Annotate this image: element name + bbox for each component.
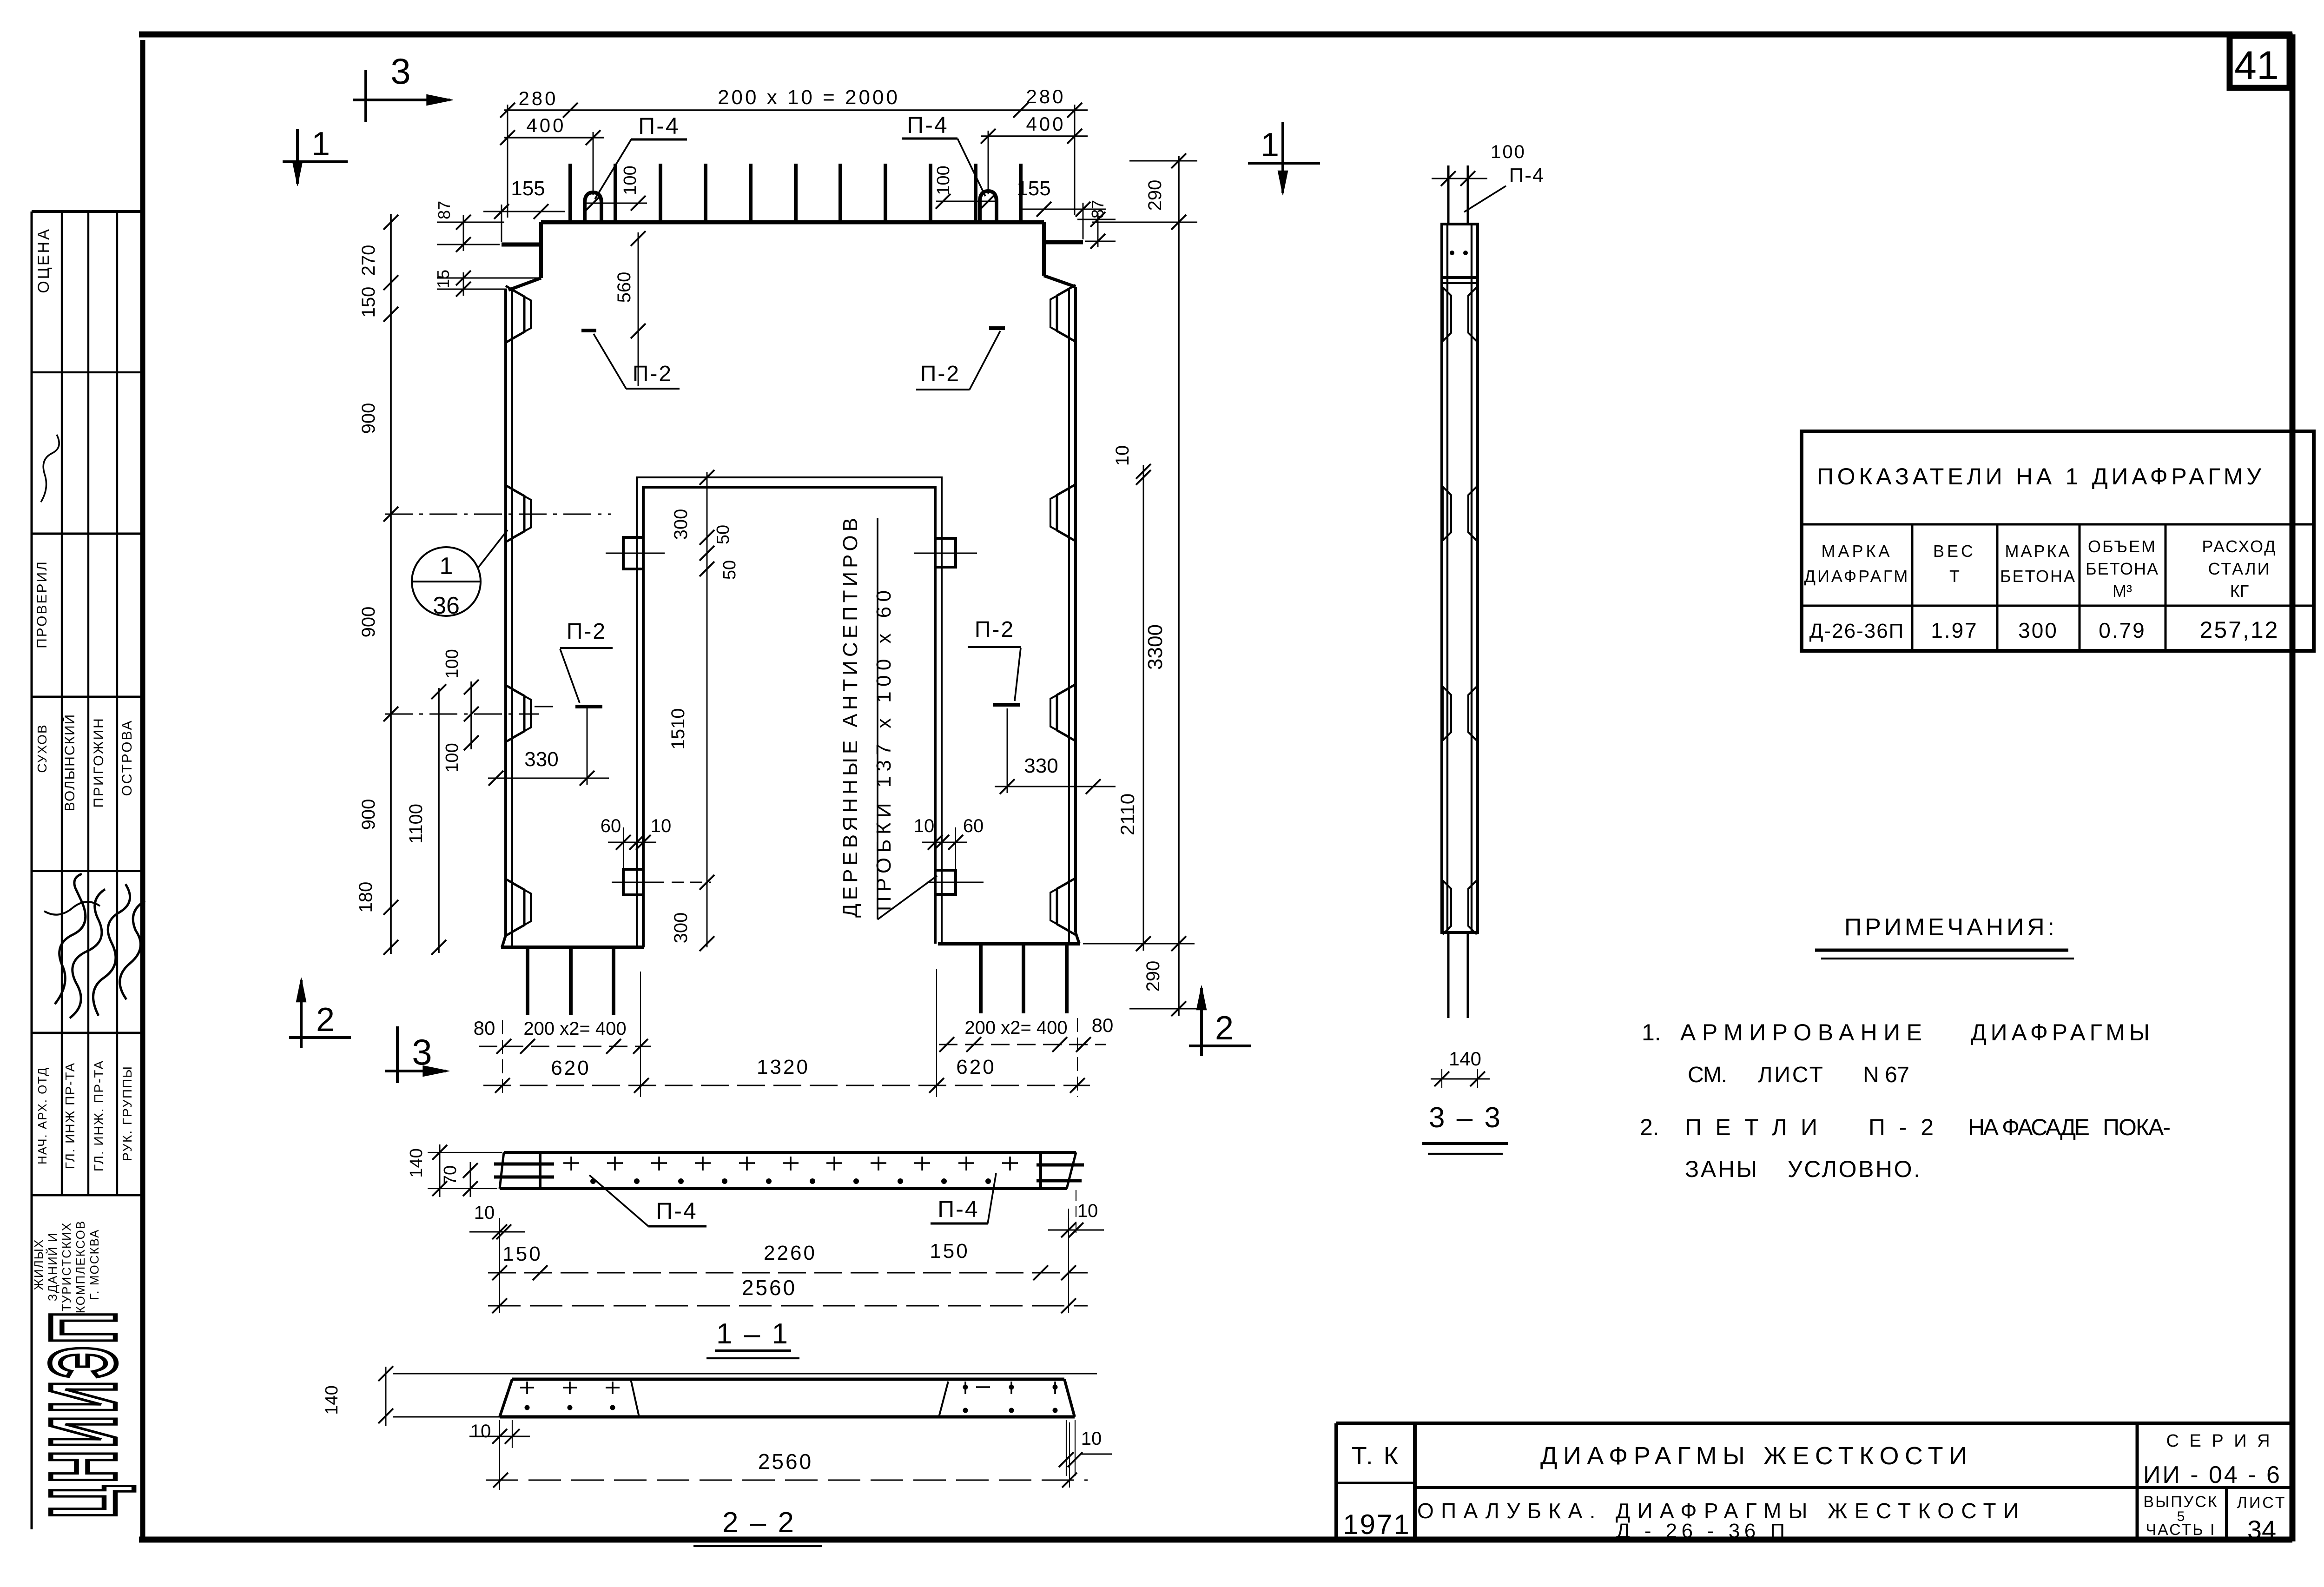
dim 100 loop right xyxy=(934,165,996,209)
svg-text:2560: 2560 xyxy=(742,1276,797,1300)
svg-text:290: 290 xyxy=(1143,961,1163,992)
stamp column labels xyxy=(34,227,135,1171)
svg-text:100: 100 xyxy=(934,165,953,195)
section 1-1 dowel cross marks xyxy=(563,1157,1018,1170)
dim line 400 left xyxy=(500,114,604,195)
dim 330 right xyxy=(995,708,1116,794)
stamp signatures xyxy=(41,435,145,1018)
svg-text:87: 87 xyxy=(435,201,454,219)
svg-text:0.79: 0.79 xyxy=(2099,618,2146,642)
wooden plug upper-left xyxy=(623,537,643,569)
section 1-1 body xyxy=(500,1152,1076,1189)
svg-text:СТАЛИ: СТАЛИ xyxy=(2208,559,2271,578)
plug centerlines upper xyxy=(606,553,977,554)
svg-text:155: 155 xyxy=(1017,177,1050,200)
svg-text:50: 50 xyxy=(720,560,739,580)
label P-4 section 1-1 right xyxy=(931,1173,996,1223)
svg-text:МАРКА: МАРКА xyxy=(2005,542,2072,561)
shear key L1 outer xyxy=(506,286,524,343)
note 2 line 1 xyxy=(1640,1114,2171,1140)
svg-text:ВОЛЫНСКИЙ: ВОЛЫНСКИЙ xyxy=(62,714,78,811)
shear key L3 outer xyxy=(506,685,524,742)
svg-text:330: 330 xyxy=(1024,754,1058,777)
svg-text:КОМПЛЕКСОВ: КОМПЛЕКСОВ xyxy=(73,1220,87,1313)
svg-text:П-4: П-4 xyxy=(938,1196,979,1222)
stamp institute text xyxy=(32,1220,101,1313)
svg-text:140: 140 xyxy=(322,1385,342,1415)
svg-text:2110: 2110 xyxy=(1116,793,1138,835)
wooden plug upper-right xyxy=(935,538,956,567)
title 2-2 xyxy=(693,1507,822,1546)
dim 150 2260 150 xyxy=(488,1218,1088,1313)
panel right top edge xyxy=(1042,222,1046,276)
svg-text:620: 620 xyxy=(551,1057,590,1079)
panel left outer edge xyxy=(504,289,507,935)
svg-text:ОСТРОВА: ОСТРОВА xyxy=(119,719,135,796)
dim 290 top right xyxy=(1092,161,1197,222)
dim 60 10 lower-left plug xyxy=(601,816,672,869)
loop mark P-2 lower right xyxy=(968,617,1021,705)
dim 2560 section 2-2 xyxy=(486,1422,1088,1488)
svg-text:ЗАНЫ: ЗАНЫ xyxy=(1685,1156,1757,1182)
dim 10 right section 1-1 xyxy=(1048,1190,1104,1237)
dim 1100 xyxy=(406,684,446,955)
centerline key2 xyxy=(385,514,611,515)
section marker 1 top-left xyxy=(283,126,348,186)
svg-text:ГЛ. ИНЖ. ПР-ТА: ГЛ. ИНЖ. ПР-ТА xyxy=(92,1060,106,1171)
svg-text:300: 300 xyxy=(671,509,691,540)
svg-text:Т: Т xyxy=(1949,567,1960,586)
svg-text:10: 10 xyxy=(1112,445,1133,466)
svg-text:N 67: N 67 xyxy=(1863,1063,1909,1087)
svg-text:П-2: П-2 xyxy=(975,617,1015,642)
section 3-3 key 4 xyxy=(1443,880,1477,934)
svg-text:60: 60 xyxy=(963,816,984,836)
right leg bottom edge xyxy=(938,942,1080,946)
svg-text:1320: 1320 xyxy=(757,1056,810,1078)
svg-text:150: 150 xyxy=(358,287,379,318)
svg-text:П-4: П-4 xyxy=(1509,164,1545,187)
svg-text:ВЫПУСК: ВЫПУСК xyxy=(2143,1493,2218,1511)
svg-text:60: 60 xyxy=(601,816,621,836)
dim 100 100 key3 xyxy=(442,649,479,772)
svg-text:400: 400 xyxy=(1026,113,1065,135)
svg-text:ДЕРЕВЯННЫЕ АНТИСЕПТИРОВ: ДЕРЕВЯННЫЕ АНТИСЕПТИРОВ xyxy=(839,518,862,918)
svg-text:БЕТОНА: БЕТОНА xyxy=(2086,559,2159,578)
svg-text:1: 1 xyxy=(1261,126,1279,164)
svg-text:3: 3 xyxy=(390,51,410,92)
svg-text:СУХОВ: СУХОВ xyxy=(35,724,49,773)
svg-text:10: 10 xyxy=(914,816,935,836)
svg-text:ЦНИИЭП: ЦНИИЭП xyxy=(31,1309,136,1518)
svg-text:150: 150 xyxy=(502,1243,542,1265)
svg-text:П-2: П-2 xyxy=(920,362,960,386)
svg-text:200 х2= 400: 200 х2= 400 xyxy=(523,1018,626,1039)
sheet number box 41 xyxy=(2230,36,2290,88)
title block list 34 xyxy=(2237,1494,2287,1544)
svg-text:П-4: П-4 xyxy=(907,112,948,138)
svg-text:ЖИЛЫХ: ЖИЛЫХ xyxy=(32,1239,46,1290)
section marker 3 bottom xyxy=(385,1026,449,1083)
svg-text:280: 280 xyxy=(518,87,558,109)
loop mark P-2 upper left xyxy=(581,331,680,389)
shear key R2 inner xyxy=(1050,489,1069,537)
left dim chain line xyxy=(356,214,398,955)
door opening outer contour xyxy=(637,477,942,946)
svg-text:3 – 3: 3 – 3 xyxy=(1429,1102,1502,1134)
dim 140 section 2-2 xyxy=(322,1366,1097,1426)
shear key R1 inner xyxy=(1050,289,1069,337)
dim 100 section 3-3 xyxy=(1432,142,1526,186)
note 1 line 1 xyxy=(1642,1019,2150,1045)
svg-text:ИИ - 04 - 6: ИИ - 04 - 6 xyxy=(2143,1461,2282,1488)
svg-text:80: 80 xyxy=(1092,1014,1114,1036)
svg-text:1100: 1100 xyxy=(406,804,426,844)
svg-text:36: 36 xyxy=(433,592,460,619)
svg-text:АРМИРОВАНИЕ: АРМИРОВАНИЕ xyxy=(1680,1019,1922,1045)
opening dim line 300-50-50-1510-300 xyxy=(668,470,739,951)
dim line 280|200x10=2000|280 xyxy=(500,86,1088,218)
title block frame xyxy=(1336,1423,2292,1540)
label P-4 top left xyxy=(595,113,687,199)
svg-text:10: 10 xyxy=(1077,1201,1098,1221)
panel left inner edge line xyxy=(511,290,513,946)
lifting loop P-4 left xyxy=(585,192,601,222)
svg-text:Д-26-36П: Д-26-36П xyxy=(1809,620,1905,642)
section 3-3 key 3 xyxy=(1443,687,1477,741)
dim 87 right xyxy=(1077,200,1116,249)
svg-text:ПРОБКИ 137 х 100 х 60: ПРОБКИ 137 х 100 х 60 xyxy=(872,590,895,911)
section 2-2 body xyxy=(500,1379,1075,1417)
section 2-2 left block marks xyxy=(520,1382,620,1410)
svg-text:РАСХОД: РАСХОД xyxy=(2202,537,2277,556)
svg-text:100: 100 xyxy=(1491,142,1526,162)
title block subtitle xyxy=(1417,1499,2019,1542)
svg-text:Г. МОСКВА: Г. МОСКВА xyxy=(87,1229,101,1300)
dim line 400 right xyxy=(981,113,1088,194)
label P-4 top right xyxy=(902,112,985,196)
svg-text:1: 1 xyxy=(311,126,330,163)
svg-text:900: 900 xyxy=(358,403,379,434)
dim 100 loop left xyxy=(586,165,647,211)
svg-text:100: 100 xyxy=(442,743,462,772)
svg-text:70: 70 xyxy=(441,1165,460,1185)
svg-text:БЕТОНА: БЕТОНА xyxy=(2000,567,2076,586)
note 1 line 2 xyxy=(1688,1063,1909,1087)
shear key L2 inner xyxy=(512,489,531,538)
section 3-3 key 2 xyxy=(1443,487,1477,541)
svg-text:2: 2 xyxy=(1215,1010,1234,1047)
dim 10 left section 1-1 xyxy=(469,1203,525,1239)
dim 10 right section 2-2 xyxy=(1059,1420,1112,1476)
svg-text:ПОКАЗАТЕЛИ НА 1 ДИАФРАГМУ: ПОКАЗАТЕЛИ НА 1 ДИАФРАГМУ xyxy=(1817,463,2261,489)
label P-4 section 1-1 left xyxy=(589,1175,706,1226)
top rebar dowels xyxy=(570,164,1021,222)
dim 10 60 lower-right plug xyxy=(914,816,984,870)
label wooden plugs text xyxy=(839,518,937,919)
note 2 line 2 xyxy=(1685,1156,1920,1182)
panel left top edge xyxy=(539,222,543,278)
svg-text:180: 180 xyxy=(356,882,376,913)
svg-text:15: 15 xyxy=(434,270,453,288)
svg-text:10: 10 xyxy=(651,816,672,836)
svg-text:П-2: П-2 xyxy=(1868,1114,1934,1140)
dim 200x2=400 80 right xyxy=(939,1014,1113,1052)
svg-text:1 – 1: 1 – 1 xyxy=(716,1318,790,1350)
svg-text:ЛИСТ: ЛИСТ xyxy=(2237,1494,2287,1512)
stamp logo CNIIEP xyxy=(31,1309,136,1518)
dim 155 right xyxy=(1017,177,1106,239)
svg-text:300: 300 xyxy=(671,913,691,944)
section 2-2 right block marks xyxy=(963,1382,1058,1413)
loop mark P-2 upper right xyxy=(916,328,1005,390)
svg-text:3: 3 xyxy=(412,1032,432,1072)
table headers xyxy=(1804,537,2277,601)
svg-text:100: 100 xyxy=(621,165,640,195)
title block vypusk xyxy=(2143,1493,2218,1539)
svg-text:П-4: П-4 xyxy=(656,1198,697,1224)
dim 620 1320 620 xyxy=(483,969,1090,1097)
svg-text:80: 80 xyxy=(474,1017,495,1039)
loop mark P-2 lower left xyxy=(535,619,613,707)
shear key R3 inner xyxy=(1050,688,1069,737)
dim 560 xyxy=(614,231,646,386)
svg-text:400: 400 xyxy=(526,114,566,136)
svg-text:150: 150 xyxy=(930,1240,969,1263)
dim 155 left xyxy=(483,177,565,242)
shear key L3 inner xyxy=(512,689,531,738)
svg-text:257,12: 257,12 xyxy=(2200,617,2279,643)
svg-text:ТУРИСТСКИХ: ТУРИСТСКИХ xyxy=(59,1222,73,1311)
svg-text:1510: 1510 xyxy=(668,708,688,750)
section 1-1 protruding bars right xyxy=(1037,1165,1084,1181)
section 3-3 top rebar xyxy=(1448,165,1468,224)
svg-text:10: 10 xyxy=(474,1203,495,1223)
section 3-3 column outline xyxy=(1442,224,1478,932)
svg-text:100: 100 xyxy=(442,649,462,678)
svg-text:ВЕС: ВЕС xyxy=(1933,542,1976,561)
dim 140 70 section 1-1 xyxy=(407,1144,502,1197)
section marker 3 top xyxy=(353,51,453,122)
dim 10 right of opening top xyxy=(1083,445,1195,951)
door opening inner contour xyxy=(643,487,935,947)
svg-text:155: 155 xyxy=(511,177,545,200)
svg-text:270: 270 xyxy=(358,245,379,276)
section 1-1 protruding bars left xyxy=(494,1164,554,1177)
panel top-left ear lip xyxy=(502,243,541,247)
section 3-3 loop bar dots xyxy=(1450,251,1468,255)
shear key R4 outer xyxy=(1057,878,1076,935)
section 3-3 bottom rebar xyxy=(1448,932,1468,1018)
svg-text:ОБЪЕМ: ОБЪЕМ xyxy=(2088,537,2157,556)
panel right inner edge line xyxy=(1068,288,1070,944)
svg-text:ДИАФРАГМЫ: ДИАФРАГМЫ xyxy=(1971,1019,2150,1045)
title 3-3 xyxy=(1422,1102,1508,1154)
section marker 2 bottom-left xyxy=(289,978,351,1048)
svg-text:34: 34 xyxy=(2247,1515,2276,1544)
svg-text:ДИАФРАГМ: ДИАФРАГМ xyxy=(1804,567,1910,586)
detail mark circle 1/36 xyxy=(412,530,508,619)
section marker 2 bottom-right xyxy=(1189,985,1251,1056)
svg-text:П-4: П-4 xyxy=(638,113,680,139)
svg-text:290: 290 xyxy=(1145,180,1165,211)
notes title xyxy=(1815,914,2074,959)
shear key R2 outer xyxy=(1057,484,1076,541)
svg-text:2.: 2. xyxy=(1640,1114,1659,1140)
svg-text:900: 900 xyxy=(358,799,379,830)
centerline key3 xyxy=(385,714,539,715)
table data row xyxy=(1809,617,2279,643)
shear key R4 inner xyxy=(1050,882,1069,931)
svg-text:ПОКА-: ПОКА- xyxy=(2103,1114,2171,1140)
section 1-1 dot marks xyxy=(590,1178,991,1184)
panel right outer edge xyxy=(1074,287,1077,932)
svg-text:М³: М³ xyxy=(2113,582,2132,601)
svg-text:ЗДАНИЙ И: ЗДАНИЙ И xyxy=(46,1232,59,1302)
panel top edge xyxy=(541,220,1044,225)
section marker 1 top-right xyxy=(1248,122,1320,195)
lifting loop P-4 right xyxy=(980,191,997,222)
panel right bevel xyxy=(1044,276,1076,287)
svg-text:50: 50 xyxy=(713,525,733,544)
dim 15 left xyxy=(434,270,539,297)
svg-text:560: 560 xyxy=(614,272,634,303)
svg-text:ПРИМЕЧАНИЯ:: ПРИМЕЧАНИЯ: xyxy=(1844,914,2054,941)
svg-text:П-2: П-2 xyxy=(567,619,607,644)
bottom rebar dowels left leg xyxy=(528,947,614,1015)
panel left bevel xyxy=(508,278,541,290)
shear key L4 outer xyxy=(506,879,524,936)
svg-text:КГ: КГ xyxy=(2230,582,2249,601)
svg-text:МАРКА: МАРКА xyxy=(1822,542,1893,561)
shear key L2 outer xyxy=(506,485,524,542)
svg-text:200 х2= 400: 200 х2= 400 xyxy=(964,1018,1067,1038)
dim 10 left section 2-2 xyxy=(469,1420,530,1490)
svg-text:1.97: 1.97 xyxy=(1931,618,1978,642)
wooden plug lower-left xyxy=(623,869,643,895)
svg-text:620: 620 xyxy=(956,1056,996,1078)
section 3-3 key 1 xyxy=(1443,287,1477,341)
dim 80 200x2=400 left xyxy=(474,1017,651,1054)
svg-text:300: 300 xyxy=(2018,618,2058,642)
svg-text:10: 10 xyxy=(1081,1428,1102,1449)
svg-text:41: 41 xyxy=(2234,43,2279,88)
shear key L4 inner xyxy=(512,883,531,932)
dim 3300 right xyxy=(1129,153,1199,1016)
panel bottom-left corner bevel xyxy=(502,935,506,947)
svg-text:ЧАСТЬ I: ЧАСТЬ I xyxy=(2146,1521,2216,1539)
svg-text:НА ФАСАДЕ: НА ФАСАДЕ xyxy=(1968,1114,2090,1140)
left leg bottom edge xyxy=(501,946,644,949)
title block TK 1971 xyxy=(1343,1442,1410,1540)
svg-text:Т. К: Т. К xyxy=(1352,1442,1400,1470)
svg-text:П-2: П-2 xyxy=(633,362,673,386)
svg-text:НАЧ. АРХ. ОТД: НАЧ. АРХ. ОТД xyxy=(35,1067,49,1164)
svg-text:900: 900 xyxy=(358,607,379,638)
svg-text:200 x 10 = 2000: 200 x 10 = 2000 xyxy=(718,86,900,109)
svg-text:330: 330 xyxy=(524,748,558,771)
shear key R1 outer xyxy=(1057,285,1076,342)
svg-text:2 – 2: 2 – 2 xyxy=(722,1507,796,1539)
svg-text:1.: 1. xyxy=(1642,1019,1661,1045)
svg-text:УСЛОВНО.: УСЛОВНО. xyxy=(1788,1156,1920,1182)
svg-text:С Е Р И Я: С Е Р И Я xyxy=(2166,1431,2272,1451)
bottom rebar dowels right leg xyxy=(981,944,1067,1013)
svg-text:3300: 3300 xyxy=(1144,624,1167,670)
panel top-right ear lip xyxy=(1044,240,1083,245)
panel bottom-right corner bevel xyxy=(1076,932,1079,944)
dim 140 section 3-3 xyxy=(1431,1048,1490,1088)
svg-text:1: 1 xyxy=(440,553,453,580)
svg-text:140: 140 xyxy=(1449,1048,1481,1070)
title block seriya xyxy=(2143,1431,2282,1488)
dim 330 left xyxy=(488,708,609,786)
title 1-1 xyxy=(706,1318,799,1358)
wooden plug lower-right xyxy=(935,870,956,894)
shear key R3 outer xyxy=(1057,684,1076,741)
svg-text:140: 140 xyxy=(407,1148,426,1177)
plug centerlines lower xyxy=(612,882,984,883)
svg-text:1971: 1971 xyxy=(1343,1509,1410,1540)
svg-text:2260: 2260 xyxy=(764,1242,817,1264)
svg-text:РУК. ГРУППЫ: РУК. ГРУППЫ xyxy=(120,1065,134,1161)
svg-text:ОЦЕНА: ОЦЕНА xyxy=(35,227,53,293)
svg-text:2560: 2560 xyxy=(758,1449,813,1474)
svg-text:10: 10 xyxy=(470,1421,491,1442)
svg-text:280: 280 xyxy=(1026,86,1065,107)
svg-text:СМ.: СМ. xyxy=(1688,1063,1727,1087)
label P-4 section 3-3 xyxy=(1464,164,1545,212)
svg-text:2: 2 xyxy=(316,1001,335,1038)
svg-text:ПРИГОЖИН: ПРИГОЖИН xyxy=(91,717,106,807)
dim 87 left xyxy=(435,201,504,252)
svg-text:ПРОВЕРИЛ: ПРОВЕРИЛ xyxy=(34,560,50,648)
table indicators frame xyxy=(1802,431,2314,651)
dim 2560 section 1-1 xyxy=(488,1276,1088,1313)
stamp column grid xyxy=(32,212,143,1529)
svg-text:ГЛ. ИНЖ ПР-ТА: ГЛ. ИНЖ ПР-ТА xyxy=(63,1062,77,1169)
shear key L1 inner xyxy=(512,290,531,338)
